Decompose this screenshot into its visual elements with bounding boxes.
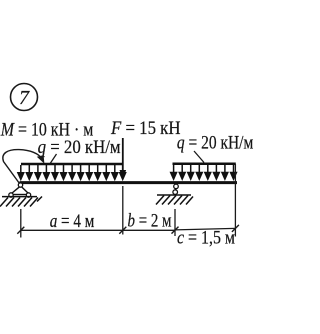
dimension line a+b bbox=[21, 229, 175, 231]
svg-text:b = 2 м: b = 2 м bbox=[128, 211, 172, 232]
leader line from right q label bbox=[194, 151, 204, 163]
ground under support B bbox=[156, 195, 193, 205]
ground under support A bbox=[0, 197, 42, 207]
extension line at F bbox=[122, 186, 124, 235]
dimension tick at B bbox=[172, 227, 179, 234]
svg-text:F = 15 кН: F = 15 кН bbox=[110, 118, 181, 139]
svg-text:c = 1,5 м: c = 1,5 м bbox=[177, 228, 235, 249]
extension line at support B bbox=[174, 209, 176, 236]
dimension line c bbox=[175, 228, 235, 230]
distributed load q left : top line bbox=[21, 163, 124, 166]
svg-text:q = 20 кН/м: q = 20 кН/м bbox=[177, 133, 253, 154]
distributed load q left : arrows bbox=[18, 165, 127, 180]
distributed load q right : top line bbox=[173, 163, 236, 166]
roller support B (middle) bbox=[173, 184, 178, 194]
svg-text:a = 4 м: a = 4 м bbox=[50, 211, 95, 232]
extension line at support A bbox=[20, 209, 22, 238]
force F arrow bbox=[120, 138, 127, 180]
right load edge / extension line at beam end bbox=[234, 164, 236, 237]
pin support A (left) bbox=[9, 183, 31, 197]
svg-text:7: 7 bbox=[19, 87, 30, 109]
distributed load q right : arrows bbox=[170, 165, 237, 180]
dimension tick at A bbox=[17, 227, 24, 234]
figure number circle 7 bbox=[11, 84, 38, 111]
dimension tick at beam end bbox=[232, 225, 239, 232]
dimension tick at F bbox=[119, 227, 126, 234]
beam bbox=[20, 181, 238, 184]
leader line from left q label bbox=[50, 154, 57, 165]
moment M curved arrow bbox=[3, 150, 45, 184]
svg-text:q = 20 кН/м: q = 20 кН/м bbox=[38, 137, 121, 158]
